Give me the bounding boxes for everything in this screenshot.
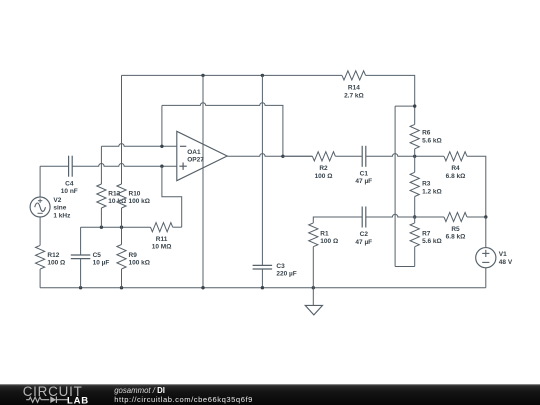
- node plus junction: [160, 165, 163, 168]
- wire R5 to V1 top: [467, 216, 486, 218]
- capacitor C2: [355, 207, 372, 246]
- svg-text:10 nF: 10 nF: [61, 188, 78, 195]
- node row1-RC junction: [413, 155, 416, 158]
- wire R1 bottom lead: [312, 247, 314, 288]
- svg-text:220 µF: 220 µF: [276, 271, 296, 278]
- node mid R13 junction: [100, 226, 103, 229]
- wire plus L-bend to R11: [162, 166, 182, 227]
- wire vertical through op-amp: [202, 75, 204, 287]
- wire T junction to bypass column: [395, 105, 415, 107]
- svg-text:V1: V1: [499, 251, 507, 258]
- wire R4 to right column: [467, 156, 486, 217]
- resistor R3: [410, 172, 442, 196]
- svg-text:1 kHz: 1 kHz: [53, 212, 71, 219]
- svg-text:R1: R1: [320, 230, 329, 237]
- node rail C3: [261, 286, 264, 289]
- wire R6 to row1: [414, 149, 416, 157]
- svg-text:OA1: OA1: [187, 149, 201, 156]
- svg-text:2.7 kΩ: 2.7 kΩ: [344, 92, 364, 99]
- resistor R2: [312, 152, 335, 180]
- wire R6 column: [414, 106, 416, 124]
- wire R11 right lead: [173, 226, 182, 228]
- node rail C5: [79, 286, 82, 289]
- capacitor C1: [355, 146, 372, 185]
- wire bottom rail: [40, 287, 486, 289]
- resistor R7: [410, 223, 442, 247]
- wire V1 bottom lead: [485, 268, 487, 288]
- wire bypass vertical (R7 return): [394, 106, 396, 266]
- wire V2 top lead: [39, 166, 41, 197]
- svg-text:R2: R2: [319, 165, 328, 172]
- svg-text:47 µF: 47 µF: [355, 178, 372, 185]
- op-amp OA1: [177, 131, 227, 180]
- resistor R12: [36, 245, 66, 269]
- svg-text:10 MΩ: 10 MΩ: [152, 244, 172, 251]
- wire R12 bottom lead: [39, 269, 41, 288]
- node rail A: [201, 286, 204, 289]
- svg-text:OP27: OP27: [187, 157, 204, 164]
- node output junction: [281, 155, 284, 158]
- svg-text:100 Ω: 100 Ω: [47, 260, 65, 267]
- wire R2 to C1: [335, 155, 362, 157]
- wire R10 column: [121, 75, 123, 227]
- svg-text:R7: R7: [422, 230, 431, 237]
- svg-text:R12: R12: [47, 252, 59, 259]
- resistor R5: [444, 212, 467, 240]
- svg-text:100 Ω: 100 Ω: [320, 238, 338, 245]
- wire plus input row b: [72, 164, 177, 167]
- wire row2 R1 to C2: [313, 217, 362, 223]
- svg-text:V2: V2: [53, 197, 61, 204]
- node junction top-B: [261, 74, 264, 77]
- svg-text:C4: C4: [65, 180, 74, 187]
- node junction top-A: [201, 74, 204, 77]
- wire R13 column: [100, 146, 102, 227]
- wire output to R2: [283, 155, 313, 157]
- wire V1 top lead: [485, 217, 487, 248]
- svg-text:5.6 kΩ: 5.6 kΩ: [422, 137, 442, 144]
- svg-text:C1: C1: [360, 170, 369, 177]
- svg-text:sine: sine: [53, 205, 66, 212]
- svg-text:1.2 kΩ: 1.2 kΩ: [422, 188, 442, 195]
- capacitor C5: [71, 252, 110, 267]
- svg-text:R11: R11: [156, 236, 168, 243]
- node row2 right junction: [484, 215, 487, 218]
- capacitor C3: [253, 263, 297, 278]
- resistor R14: [342, 71, 366, 100]
- wire R7 bottom return: [395, 266, 415, 268]
- resistor R11: [151, 223, 173, 251]
- svg-text:6.8 kΩ: 6.8 kΩ: [446, 173, 466, 180]
- node mid R10 junction: [120, 226, 123, 229]
- wire R7 leads: [414, 217, 416, 267]
- wire mid row C5 to R11: [81, 226, 151, 228]
- node row2-RC junction: [413, 215, 416, 218]
- svg-text:R13: R13: [108, 190, 120, 197]
- svg-text:R10: R10: [129, 190, 141, 197]
- resistor R6: [410, 124, 442, 148]
- svg-text:10 µF: 10 µF: [93, 260, 110, 267]
- wire C5 bottom lead: [80, 259, 82, 288]
- wire vertical C3 column lower: [261, 269, 263, 288]
- svg-text:C2: C2: [360, 231, 369, 238]
- svg-text:LAB: LAB: [67, 395, 89, 405]
- resistor R1: [309, 223, 338, 247]
- resistor R4: [444, 152, 467, 180]
- wire R9 leads: [121, 227, 123, 288]
- svg-text:R4: R4: [451, 165, 460, 172]
- wire top rail: [122, 74, 343, 76]
- svg-text:R6: R6: [422, 130, 431, 137]
- resistor R9: [117, 245, 150, 270]
- resistor R10: [117, 184, 150, 208]
- wire R3 column bottom: [414, 197, 416, 218]
- wire C2 to R5: [366, 214, 444, 217]
- voltage source V1: [476, 248, 513, 268]
- wire C5 top lead: [80, 227, 82, 255]
- capacitor C4: [61, 156, 78, 195]
- svg-text:R5: R5: [451, 226, 460, 233]
- node rail R9: [120, 286, 123, 289]
- wire R14 right lead + drop to T junction: [366, 75, 415, 106]
- wire output row: [227, 154, 312, 157]
- wire V2 bottom lead: [39, 217, 41, 245]
- wire vertical C3 column upper: [261, 75, 263, 265]
- resistor R13: [97, 184, 126, 208]
- node minus junction: [160, 145, 163, 148]
- svg-text:100 kΩ: 100 kΩ: [129, 198, 150, 205]
- wire feedback drop to minus: [161, 105, 163, 146]
- voltage source V2: [30, 197, 71, 219]
- svg-text:100 kΩ: 100 kΩ: [129, 260, 150, 267]
- node R6 top junction: [413, 104, 416, 107]
- wire R3 column top: [414, 156, 416, 172]
- svg-text:100 Ω: 100 Ω: [315, 173, 333, 180]
- svg-text:47 µF: 47 µF: [355, 239, 372, 246]
- svg-text:5.6 kΩ: 5.6 kΩ: [422, 238, 442, 245]
- wire minus input row: [101, 144, 176, 147]
- wire C1 to R4 node: [366, 154, 444, 157]
- svg-text:R9: R9: [129, 252, 138, 259]
- node rail ground: [312, 286, 315, 289]
- svg-text:gosammot / DI: gosammot / DI: [114, 386, 165, 395]
- svg-text:C3: C3: [276, 263, 285, 270]
- svg-text:http://circuitlab.com/cbe66kq3: http://circuitlab.com/cbe66kq35q6f9: [114, 395, 253, 404]
- svg-text:R14: R14: [348, 85, 360, 92]
- svg-text:6.8 kΩ: 6.8 kΩ: [446, 234, 466, 241]
- ground: [305, 288, 322, 315]
- svg-text:C5: C5: [93, 252, 102, 259]
- wire plus input row: [40, 165, 69, 167]
- svg-text:48 V: 48 V: [499, 259, 513, 266]
- wire feedback row: [162, 103, 283, 157]
- svg-text:R3: R3: [422, 181, 431, 188]
- footer bar: [0, 384, 540, 405]
